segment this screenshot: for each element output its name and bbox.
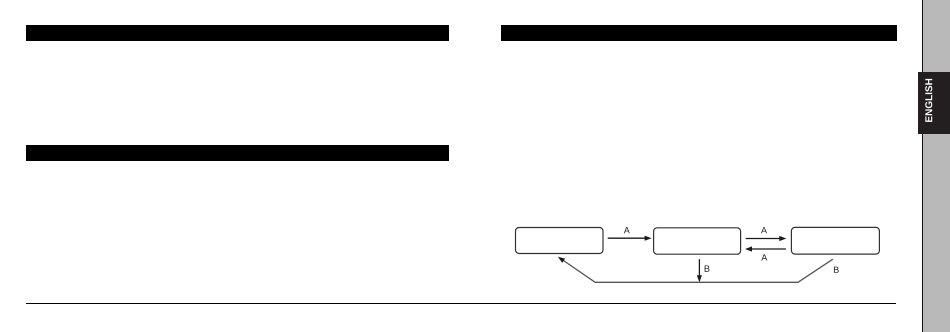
redacted heading bar left second: [26, 145, 449, 162]
gray sidebar strip: [922, 0, 950, 332]
redacted heading bar left top: [26, 25, 449, 42]
label A (arrow 1): [624, 227, 630, 233]
arrow B box2 downwards: [698, 259, 700, 276]
ENGLISH tab label (rotated 90deg CCW, reads bottom-to-top): [925, 79, 932, 122]
return path B from box3 down and across to box1: [563, 259, 833, 282]
label B (vertical arrow): [705, 266, 710, 272]
arrow A box2 to box3 (top, rightwards): [746, 238, 781, 240]
box 3 (right state): [791, 227, 879, 254]
arrow A box3 to box2 (bottom, leftwards): [751, 248, 786, 250]
redacted heading bar right top: [501, 25, 897, 42]
label A (arrow 2): [761, 227, 767, 233]
bottom horizontal rule: [26, 303, 896, 305]
label A (arrow 3): [761, 254, 767, 260]
box 2 (middle state): [654, 228, 741, 254]
box 1 (left state): [516, 228, 604, 254]
arrow A box1 to box2: [608, 237, 646, 239]
ENGLISH language tab: [918, 72, 950, 134]
label B (return path): [834, 267, 839, 273]
arrowhead into box1: [558, 257, 565, 263]
